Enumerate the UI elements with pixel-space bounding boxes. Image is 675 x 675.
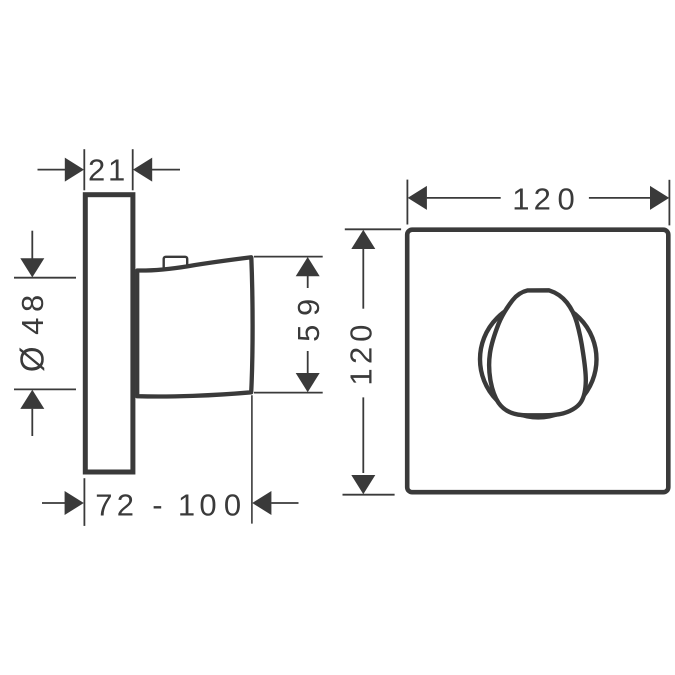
dim Ø48: bottom extension line	[14, 388, 76, 390]
dim 120 vertical: label	[344, 325, 379, 386]
svg-text:2: 2	[344, 347, 379, 364]
side view: handle body	[137, 257, 252, 396]
dim 72-100: left arrow	[65, 491, 84, 515]
dim 120 horizontal: left arrow	[408, 186, 427, 210]
dim 120 horizontal: left extension line	[406, 180, 408, 225]
svg-text:21: 21	[88, 153, 125, 188]
dim 59: upper line	[307, 276, 309, 288]
dim 72-100: left extension tick	[83, 478, 85, 526]
front view: handle base circle	[480, 301, 597, 418]
svg-text:8: 8	[15, 295, 50, 312]
svg-text:72 - 100: 72 - 100	[95, 487, 241, 522]
svg-text:4: 4	[15, 318, 50, 335]
dim 120 vertical: top extension line	[345, 228, 401, 230]
svg-text:9: 9	[291, 299, 326, 316]
dim 59: bottom extension line	[254, 392, 323, 394]
dim Ø48: label	[14, 295, 51, 372]
dim 120 horizontal: right arrow	[650, 186, 669, 210]
dim 21: left leader line	[38, 169, 66, 171]
dim Ø48: bottom leader line	[31, 409, 33, 436]
dim Ø48: top arrow (down)	[20, 258, 44, 277]
side view: button on top of handle	[164, 257, 188, 271]
dim 21: right leader line	[152, 169, 180, 171]
dim 72-100: right leader line	[271, 502, 298, 504]
svg-text:120: 120	[512, 181, 574, 216]
dim 120 vertical: bottom extension line	[343, 494, 395, 496]
svg-text:1: 1	[344, 368, 379, 385]
dim 21: left arrow	[65, 158, 84, 182]
front view: square escutcheon plate	[407, 230, 668, 493]
dim Ø48: top extension line	[14, 277, 76, 279]
side view: wall plate	[85, 195, 133, 472]
dim 72-100: right arrow	[252, 491, 271, 515]
dim 120 horizontal: right line	[589, 197, 650, 199]
dim 120 horizontal: right extension line	[668, 180, 670, 226]
dim 72-100: left leader line	[42, 502, 65, 504]
dim 59: top extension line	[254, 256, 323, 258]
dim 120 horizontal: left line	[427, 197, 501, 199]
dim 120 vertical: top arrow (up)	[351, 230, 375, 249]
dim 59: lower line	[307, 351, 309, 373]
dim 21: right arrow	[133, 158, 152, 182]
dim 59: top arrow (up)	[296, 257, 320, 276]
svg-text:0: 0	[344, 325, 379, 342]
dim 21: left extension tick	[83, 149, 85, 190]
dim 120 vertical: lower line	[362, 397, 364, 473]
dim 59: label	[291, 299, 326, 342]
dim 120 vertical: upper line	[362, 249, 364, 309]
dim Ø48: bottom arrow (up)	[20, 390, 44, 409]
svg-text:Ø: Ø	[14, 346, 51, 372]
dim 120 vertical: bottom arrow (down)	[351, 475, 375, 494]
svg-text:5: 5	[291, 325, 326, 342]
dim 72-100: right extension tick	[251, 395, 253, 523]
front view: egg-shaped handle	[489, 290, 586, 415]
dim Ø48: top leader line	[31, 231, 33, 259]
dim 59: bottom arrow (down)	[296, 373, 320, 392]
dim 21: right extension tick	[132, 149, 134, 190]
